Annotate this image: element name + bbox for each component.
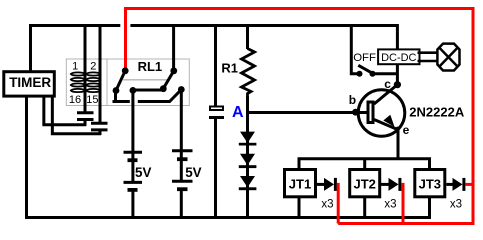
transistor Q1 emitter diagonal <box>374 120 398 130</box>
wire top rail right segment down to DC-DC <box>130 26 397 49</box>
junction dots relay <box>113 67 401 131</box>
wire OFF switch drop from rail <box>351 27 359 74</box>
TIMER box <box>4 72 55 96</box>
JT2 diode (x3) <box>389 178 402 191</box>
svg-text:x3: x3 <box>384 199 396 211</box>
capacitor C2 (under relay pin 15) <box>91 123 108 130</box>
svg-text:TIMER: TIMER <box>9 75 51 90</box>
wire top rail left segment with TIMER top pin <box>31 26 121 71</box>
wire node A horizontal to base of Q1 <box>246 111 368 114</box>
wire TIMER pin3 to cap C2 <box>52 97 101 134</box>
svg-text:RL1: RL1 <box>138 59 163 74</box>
wire JT3 bottom pin <box>428 198 431 217</box>
node D dot <box>160 85 167 92</box>
DC-DC converter box <box>378 49 419 64</box>
wire cap C2 bottom stub <box>99 130 102 135</box>
node A dot (red wire to lever) <box>122 67 129 74</box>
transistor Q1 base bar <box>368 102 373 123</box>
transistor Q1 collector diagonal <box>374 85 397 104</box>
wire battery B2 bottom lead <box>180 191 183 218</box>
transistor Q1 2N2222A circle <box>358 90 405 137</box>
svg-text:DC-DC: DC-DC <box>381 52 416 64</box>
wire TIMER pin2 to cap C1 <box>44 97 86 125</box>
wire relay C-D horizontal <box>133 89 164 92</box>
wire battery B2 top lead from F contact <box>180 90 183 150</box>
svg-text:2N2222A: 2N2222A <box>409 105 465 120</box>
wire battery B2 between cells <box>180 161 183 181</box>
diode D1 <box>239 132 257 146</box>
node E dot <box>170 67 177 74</box>
svg-text:e: e <box>403 123 410 137</box>
wire relay B horizontal segment 1 <box>113 100 130 103</box>
wire Q1 emitter down to JT connector <box>397 129 400 159</box>
Q1 base dot <box>352 109 359 116</box>
red wire JT3 diode to right red rail <box>465 183 473 186</box>
node C dot <box>130 87 137 94</box>
Q1 emitter joint <box>396 127 400 131</box>
svg-text:JT2: JT2 <box>353 177 375 192</box>
node F dot <box>178 86 185 93</box>
wire OFF switch to collector net <box>373 72 398 75</box>
svg-text:A: A <box>232 104 244 121</box>
OFF switch dot right <box>370 71 376 77</box>
relay coil 1 <box>71 72 85 92</box>
wire coil1 column from rail to cap C1 <box>84 27 87 112</box>
OFF switch dot left <box>357 71 363 77</box>
wire JT1 bottom pin <box>298 198 301 217</box>
wire cap C3 column top <box>214 27 217 107</box>
diode D2 <box>239 154 257 168</box>
wire OFF switch lever <box>358 65 372 73</box>
wire battery B1 between cells <box>131 162 134 182</box>
JT1 diode (x3) <box>324 178 337 191</box>
svg-text:5V: 5V <box>135 165 151 180</box>
svg-text:x3: x3 <box>450 199 462 211</box>
JT2 box <box>350 170 380 197</box>
wire TIMER pin1 to ground rail and bottom ground rail <box>27 97 432 218</box>
relay RL1 gray outline <box>66 59 189 106</box>
wire DC-DC box bottom to collector dot <box>396 65 399 86</box>
battery B2 5V plates <box>172 151 193 189</box>
svg-text:x3: x3 <box>321 199 333 211</box>
wire JT2 top pin <box>363 159 366 168</box>
wire coil2 column from rail to cap C2 <box>99 27 102 123</box>
svg-text:5V: 5V <box>185 165 201 180</box>
capacitor C1 (under relay pin 16) <box>77 113 94 120</box>
relay mechanical link line <box>123 79 168 81</box>
svg-text:16: 16 <box>69 94 81 106</box>
wire JT1 diode anode stub <box>317 183 324 186</box>
capacitor C3 polarized (node A rail cap) <box>209 107 224 120</box>
svg-text:15: 15 <box>86 94 98 106</box>
diode D3 <box>239 176 257 190</box>
node B dot <box>113 87 120 94</box>
red wire JT1 diode to bottom red rail <box>337 184 338 223</box>
wire JT2 bottom pin <box>363 198 366 217</box>
wire R1 bottom lead / node A column to ground <box>246 96 249 217</box>
red wire main: relay A up, top rail, right side down, bottom rail <box>126 9 474 224</box>
wire JT3 diode anode stub <box>446 183 452 186</box>
wire relay lever E-D <box>163 71 174 89</box>
battery B1 5V plates <box>124 152 143 190</box>
JT3 diode (x3) <box>453 178 466 191</box>
wire relay lever A-B <box>116 71 125 91</box>
svg-text:JT1: JT1 <box>289 177 311 192</box>
svg-text:2: 2 <box>90 61 96 73</box>
svg-text:c: c <box>384 77 391 91</box>
wire JT2 diode anode stub <box>381 183 389 186</box>
lamp LP1 <box>437 44 459 71</box>
transistor Q1 emitter arrow <box>383 115 394 127</box>
wire cap C3 column bottom to ground rail <box>214 118 217 217</box>
relay coil 2 <box>86 72 100 92</box>
wire relay E contact to rail <box>172 27 175 71</box>
resistor R1 zigzag <box>242 49 255 98</box>
svg-text:b: b <box>349 93 356 107</box>
wire cap C1 bottom stub <box>84 120 87 127</box>
svg-text:R1: R1 <box>221 61 238 76</box>
svg-text:JT3: JT3 <box>419 177 441 192</box>
wire JT top connector <box>299 159 430 168</box>
wire relay horizontal segment 2 and diagonal to F <box>138 90 182 102</box>
wire battery B1 middle <box>131 153 134 159</box>
wire battery B2 middle <box>180 152 183 159</box>
JT1 box <box>285 170 316 197</box>
red wire JT2 diode to bottom red rail <box>401 184 403 223</box>
svg-text:OFF: OFF <box>353 52 376 64</box>
wire battery B1 bottom lead <box>131 191 134 217</box>
wire R1 top lead <box>246 27 249 49</box>
lamp connector bars <box>418 53 439 61</box>
wire relay B contact stub down <box>114 91 117 102</box>
JT3 box <box>415 170 445 197</box>
wire battery B1 top lead from C contact <box>131 91 134 152</box>
svg-text:1: 1 <box>72 61 78 73</box>
Q1 collector dot <box>394 81 401 88</box>
